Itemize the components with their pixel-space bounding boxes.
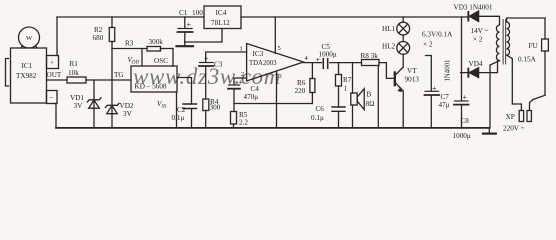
transformer T core — [503, 20, 506, 65]
svg-text:8Ω: 8Ω — [366, 100, 375, 108]
svg-text:47μ: 47μ — [439, 101, 450, 109]
svg-text:680: 680 — [93, 34, 104, 42]
wire OSC pin — [172, 49, 174, 67]
svg-text:100: 100 — [192, 9, 203, 17]
diode VD4 — [461, 72, 468, 74]
terminal + box of IC1 — [47, 56, 59, 69]
svg-text:1: 1 — [240, 46, 243, 53]
svg-text:VD4: VD4 — [469, 60, 483, 68]
svg-text:B: B — [367, 91, 372, 99]
svg-text:IC4: IC4 — [216, 9, 227, 17]
capacitor C8 electrolytic — [461, 73, 463, 101]
resistor R7 — [338, 63, 340, 75]
svg-text:R2: R2 — [94, 26, 103, 34]
capacitor C3 electrolytic — [200, 62, 214, 64]
ground right — [488, 128, 490, 133]
svg-text:IC3: IC3 — [253, 50, 264, 58]
svg-text:IC1: IC1 — [22, 62, 33, 70]
resistor R1 — [67, 77, 86, 83]
svg-text:R7: R7 — [343, 76, 352, 84]
wire Vss pin to bottom rail — [176, 92, 178, 128]
speaker B — [352, 63, 354, 93]
resistor R8 — [362, 60, 380, 66]
svg-text:W: W — [26, 35, 33, 42]
svg-text:3V: 3V — [123, 110, 133, 118]
svg-text:470μ: 470μ — [244, 93, 259, 101]
resistor R4 — [203, 99, 209, 111]
svg-text:+: + — [50, 59, 54, 67]
wire secondary bottom to ground — [490, 61, 500, 128]
svg-text:300: 300 — [210, 104, 221, 112]
wire from + terminal to top rail — [56, 17, 58, 56]
wire bottom rail — [56, 127, 489, 129]
background paper — [0, 0, 556, 149]
svg-text:0.1μ: 0.1μ — [311, 114, 324, 122]
wire primary bottom to plug — [507, 55, 522, 110]
svg-text:× 2: × 2 — [473, 36, 483, 44]
svg-text:R3: R3 — [125, 40, 134, 48]
wire IC2 right pin — [177, 78, 192, 105]
svg-text:R1: R1 — [70, 60, 79, 68]
svg-text:1000μ: 1000μ — [319, 51, 337, 59]
svg-text:www.dz3w.com: www.dz3w.com — [133, 64, 281, 89]
svg-text:9013: 9013 — [405, 76, 420, 84]
transformer primary winding — [507, 22, 510, 55]
svg-text:10k: 10k — [68, 69, 79, 77]
lamp HL1 — [402, 17, 404, 22]
zener diode VD2 — [111, 80, 113, 128]
svg-text:HL1: HL1 — [382, 25, 396, 33]
wire from - terminal to bottom rail — [55, 104, 57, 128]
svg-text:78L12: 78L12 — [211, 19, 230, 27]
capacitor C7 electrolytic — [426, 56, 432, 92]
ground — [184, 42, 186, 46]
svg-text:300k: 300k — [149, 38, 164, 46]
capacitor C2 — [183, 104, 197, 109]
svg-text:C2: C2 — [177, 106, 186, 114]
svg-text:+: + — [204, 54, 209, 63]
svg-text:+: + — [316, 56, 321, 65]
resistor R5 — [231, 112, 237, 125]
svg-text:1N4001: 1N4001 — [445, 60, 452, 82]
capacitor C5 electrolytic — [323, 59, 327, 69]
svg-text:6.3V/0.1A: 6.3V/0.1A — [422, 31, 453, 39]
zener diode VD1 — [93, 80, 95, 128]
resistor R3 — [147, 47, 161, 52]
svg-text:0.15A: 0.15A — [518, 56, 537, 64]
svg-text:R8 3k: R8 3k — [361, 52, 379, 60]
svg-text:VD3 1N4001: VD3 1N4001 — [454, 4, 493, 12]
svg-text:–: – — [49, 94, 54, 102]
capacitor C4 electrolytic — [229, 84, 240, 86]
svg-text:C6: C6 — [316, 105, 325, 113]
svg-text:0.1μ: 0.1μ — [172, 114, 185, 122]
op-amp IC3 TDA2003 triangle — [247, 44, 304, 82]
label texts — [16, 4, 538, 141]
microphone W — [19, 27, 40, 48]
transformer secondary winding — [479, 16, 500, 60]
svg-text:220V ~: 220V ~ — [503, 125, 525, 133]
svg-text:VT: VT — [407, 67, 417, 75]
wire pin5 to rail — [274, 17, 276, 54]
wire R8 to base — [379, 63, 393, 79]
transistor VT 9013 — [394, 71, 396, 86]
diode VD3 — [462, 16, 468, 18]
lamp HL2 — [402, 35, 404, 42]
wire fuse to plug — [530, 95, 546, 110]
svg-text:2.2: 2.2 — [239, 119, 248, 127]
wire IC3 output pin4 — [304, 62, 322, 64]
wire primary top to fuse — [507, 18, 545, 22]
svg-text:VD1: VD1 — [70, 94, 84, 102]
svg-text:C7: C7 — [441, 93, 450, 101]
svg-text:TG: TG — [114, 71, 124, 79]
svg-text:1: 1 — [344, 85, 348, 93]
wire R8 right to ground — [377, 66, 379, 128]
svg-text:+: + — [187, 21, 192, 30]
svg-text:14V ~: 14V ~ — [471, 27, 489, 35]
svg-text:× 2: × 2 — [423, 41, 433, 49]
wire top supply rail — [57, 16, 462, 18]
svg-text:3V: 3V — [74, 102, 84, 110]
resistor R2 — [111, 17, 113, 28]
plug XP pins — [519, 111, 523, 122]
svg-text:+: + — [432, 84, 437, 93]
svg-text:VD2: VD2 — [120, 102, 134, 110]
svg-text:R6: R6 — [297, 79, 306, 87]
IC2 KD-5608 box — [131, 66, 177, 92]
wire Vdd pin — [141, 49, 143, 67]
svg-text:TX982: TX982 — [16, 72, 37, 80]
svg-text:C1: C1 — [179, 9, 188, 17]
svg-text:FU: FU — [529, 42, 539, 50]
svg-text:XP: XP — [506, 113, 515, 121]
wire OUT line — [47, 79, 68, 81]
wire R1 to IC2 TG — [86, 79, 131, 81]
svg-text:5: 5 — [278, 45, 281, 52]
wire R2 node down to TG line — [111, 49, 113, 81]
resistor R6 — [311, 63, 313, 79]
terminal - box of IC1 — [47, 91, 58, 104]
svg-text:1000μ: 1000μ — [453, 132, 471, 140]
regulator IC4 78L12 box — [204, 6, 241, 29]
IC U1 IC1 TX982 box — [11, 48, 47, 103]
wire feedback node — [234, 103, 312, 105]
svg-text:C8: C8 — [461, 117, 470, 125]
wire R3 to OSC pin — [161, 48, 174, 50]
wire IC3 pin1 — [206, 52, 247, 62]
svg-text:220: 220 — [295, 87, 306, 95]
capacitor C6 — [332, 107, 345, 111]
svg-text:OUT: OUT — [47, 71, 62, 79]
wire Vdd node horizontal — [112, 48, 147, 50]
wire pin3 to bottom rail — [276, 72, 278, 128]
svg-text:+: + — [463, 93, 468, 102]
node bracket left edge — [6, 59, 9, 87]
wire C1 gnd to IC4 gnd pin — [185, 29, 222, 43]
svg-text:HL2: HL2 — [382, 43, 396, 51]
fuse FU — [544, 18, 546, 39]
capacitor C1 electrolytic — [184, 17, 186, 28]
wire pin2 — [234, 78, 247, 85]
wire VD3 node down — [461, 17, 463, 73]
